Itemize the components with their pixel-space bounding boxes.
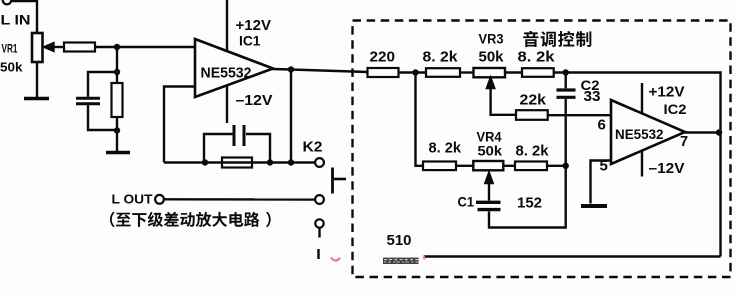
resistor (input series, unlabeled) <box>64 43 95 52</box>
note (to next-stage differential amplifier) <box>110 212 271 227</box>
VR3 wiper arrow <box>487 78 516 115</box>
svg-text:8. 2k: 8. 2k <box>518 49 556 66</box>
svg-text:VR3: VR3 <box>479 32 504 47</box>
junction dot IC1 output <box>288 66 294 72</box>
VR4 wiper arrow <box>485 173 492 201</box>
wire bus C2 down to C1 loop <box>489 99 566 228</box>
terminal L OUT <box>155 195 164 204</box>
wire IC2 output pin 7 <box>685 131 721 133</box>
junction dot feedback left <box>202 159 208 165</box>
svg-text:50k: 50k <box>479 50 505 66</box>
input terminal L IN <box>3 0 12 4</box>
wire 22k to IC2 pin 6 <box>548 114 611 116</box>
svg-text:NE5532: NE5532 <box>201 66 252 82</box>
ground at IC2 pin 5 <box>581 204 607 208</box>
junction dot RC bottom <box>114 127 120 133</box>
svg-text:VR1: VR1 <box>2 42 18 56</box>
wire IC2 pin 5 to ground <box>591 161 612 204</box>
wire 8.2k to VR3 <box>460 71 474 73</box>
svg-text:152: 152 <box>517 196 542 212</box>
svg-text:NE5532: NE5532 <box>615 126 664 142</box>
junction dot row2 right <box>563 163 569 169</box>
wire 8.2k to VR4 <box>456 165 473 167</box>
svg-text:5: 5 <box>600 158 608 175</box>
VR1 wiper arrow <box>45 43 65 51</box>
svg-text:+12V: +12V <box>236 18 272 34</box>
svg-text:+12V: +12V <box>649 85 685 101</box>
wire branch to capacitor <box>88 72 117 97</box>
wire VR3 to 8.2k <box>505 71 522 73</box>
wire K2 bottom stub <box>318 228 320 238</box>
red artifact dot at 510 wire <box>424 256 425 260</box>
junction dot RC top <box>114 69 120 75</box>
svg-text:IC1: IC1 <box>239 34 261 49</box>
svg-text:–12V: –12V <box>236 92 273 109</box>
junction dot feedback right <box>267 159 273 165</box>
resistor 8.2k (bass left) <box>426 68 460 77</box>
svg-text:50k: 50k <box>0 60 23 75</box>
resistor 220 <box>368 68 399 77</box>
switch K2 contact middle <box>315 195 324 204</box>
wire feedback bottom row <box>164 161 315 163</box>
IC1 +12V supply stub <box>226 0 228 51</box>
wire resistor to IC1 non-inv input <box>95 46 195 48</box>
svg-text:50k: 50k <box>478 143 503 159</box>
potentiometer VR1 body <box>32 33 43 62</box>
svg-text:8. 2k: 8. 2k <box>423 49 459 66</box>
svg-text:220: 220 <box>370 49 396 66</box>
svg-text:–12V: –12V <box>649 161 685 177</box>
svg-text:C1: C1 <box>458 195 475 210</box>
switch K2 actuator <box>333 168 347 194</box>
wire 220 to 8.2k <box>399 71 427 73</box>
dashed enclosure (tone control unit) <box>353 21 731 278</box>
junction dot IC2 output <box>716 129 722 135</box>
wire feedback bottom return <box>424 255 721 257</box>
potentiometer VR3 body <box>474 68 506 77</box>
svg-text:L OUT: L OUT <box>112 192 153 207</box>
resistor 8.2k (bass right) <box>522 68 554 77</box>
wire VR4 to 8.2k <box>503 165 515 167</box>
svg-text:6: 6 <box>598 117 606 134</box>
wire feedback capacitor loop <box>204 134 270 163</box>
svg-text:8. 2k: 8. 2k <box>429 140 462 157</box>
ground below VR1 <box>24 97 49 101</box>
switch K2 contact bottom <box>315 219 323 227</box>
switch K2 contact top <box>315 158 324 167</box>
wire resistor bottom <box>116 117 118 151</box>
svg-text:K2: K2 <box>303 139 323 156</box>
resistor (input shunt) <box>112 83 123 117</box>
wire input terminal to VR1 top <box>11 1 37 33</box>
wire row1 to output node <box>554 73 721 257</box>
resistor 8.2k (treble right) <box>515 162 547 171</box>
capacitor C1 <box>476 202 501 209</box>
wire IC1 inverting input from feedback <box>164 87 195 163</box>
svg-text:8. 2k: 8. 2k <box>516 143 550 160</box>
IC1 -12V supply stub <box>226 85 228 123</box>
wire L OUT to K2 <box>164 198 315 201</box>
resistor 510 (faded) <box>383 258 419 264</box>
junction dot output column bottom <box>288 159 294 165</box>
svg-text:510: 510 <box>387 233 412 249</box>
IC2 +12V supply stub <box>641 83 643 114</box>
ground below RC pair <box>106 151 130 155</box>
resistor 22k <box>516 110 548 120</box>
potentiometer VR4 body <box>473 161 503 170</box>
IC2 -12V supply stub <box>641 150 643 177</box>
wire row2 to bus <box>547 165 566 167</box>
node at input RC junction <box>114 44 120 50</box>
title tone control <box>523 31 591 47</box>
wire capacitor bottom to junction <box>88 105 117 130</box>
capacitor (input shunt) <box>76 98 100 104</box>
wire IC1 output to tone box <box>272 69 368 72</box>
op-amp IC2 NE5532 <box>611 100 685 164</box>
wire VR1 bottom to ground <box>36 62 38 97</box>
wire bus row1-to-C2 <box>565 73 567 89</box>
svg-text:7: 7 <box>680 134 688 150</box>
resistor feedback <box>222 158 252 168</box>
svg-text:L IN: L IN <box>1 12 31 28</box>
wire stub (faded) below K2 <box>317 249 319 259</box>
red artifact mark near K2 <box>331 258 340 261</box>
wire IC1 output column <box>290 70 292 163</box>
wire node A down to row2 <box>416 73 424 166</box>
svg-text:22k: 22k <box>520 92 547 109</box>
svg-text:IC2: IC2 <box>664 102 687 117</box>
op-amp IC1 NE5532 <box>195 39 273 97</box>
capacitor C2 <box>557 90 576 97</box>
junction dot row1 right <box>563 69 569 75</box>
node A junction dot <box>412 69 418 75</box>
capacitor feedback <box>234 125 244 146</box>
wire node down to RC pair <box>116 47 118 83</box>
svg-text:33: 33 <box>584 89 601 105</box>
resistor 8.2k (treble left) <box>423 162 456 171</box>
